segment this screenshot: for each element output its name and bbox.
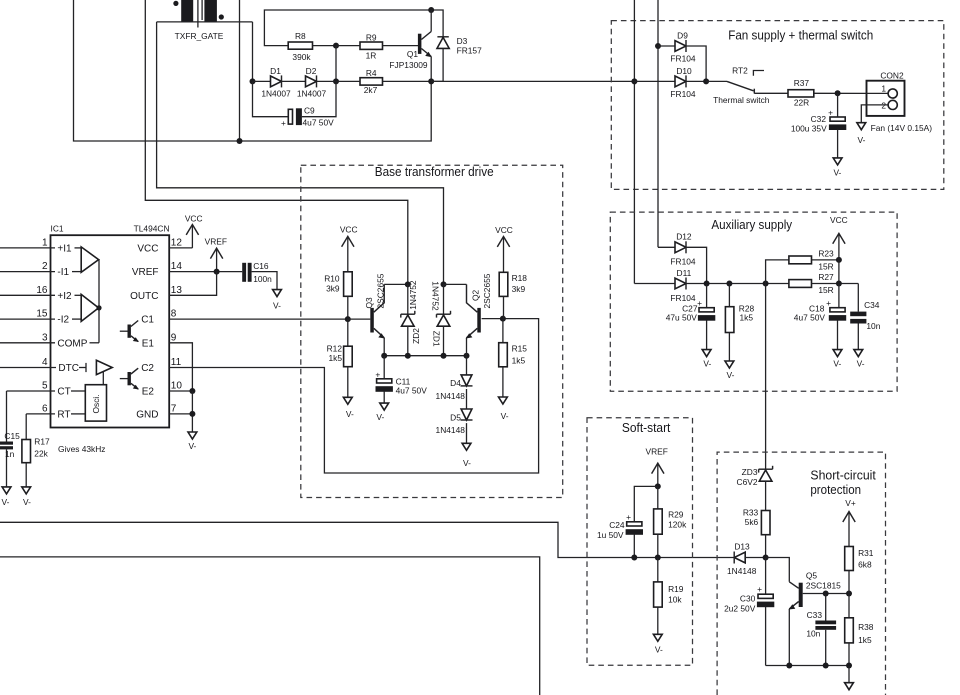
node: Q5 emitter on rail <box>786 663 792 669</box>
svg-text:4: 4 <box>42 357 48 368</box>
node: R29 bottom junction <box>655 555 661 561</box>
svg-text:D5: D5 <box>450 412 461 422</box>
svg-text:ZD3: ZD3 <box>742 467 758 477</box>
thermal switch RT2 <box>706 65 788 105</box>
svg-text:V-: V- <box>2 497 10 507</box>
svg-text:6k8: 6k8 <box>858 560 872 570</box>
svg-text:V-: V- <box>858 135 866 145</box>
node: ZD2 cathode junction <box>405 281 411 287</box>
IC1 pin 7 GND <box>136 391 192 432</box>
svg-text:FR157: FR157 <box>457 45 482 55</box>
wire: vertical from top at x=239.5 <box>239 0 241 141</box>
svg-text:Short-circuit: Short-circuit <box>810 467 876 482</box>
svg-text:V-: V- <box>501 411 509 421</box>
power VCC (right, R18) <box>495 225 513 272</box>
svg-text:+: + <box>626 512 631 522</box>
svg-text:R29: R29 <box>668 509 684 519</box>
resistor R4 <box>336 68 431 95</box>
node: R23/VCC junction <box>836 257 842 263</box>
IC1 pin 12 VCC <box>137 238 192 255</box>
svg-text:3k9: 3k9 <box>512 284 526 294</box>
svg-text:7: 7 <box>171 404 177 415</box>
IC1 pin 11 C2 (wire to Q2 base) <box>141 319 538 473</box>
svg-text:Q1: Q1 <box>407 49 419 59</box>
resistor R38 1k5 <box>845 594 874 666</box>
diode D4 1N4148 <box>436 356 473 401</box>
svg-text:15: 15 <box>36 309 48 320</box>
svg-text:E2: E2 <box>142 387 155 398</box>
svg-text:8: 8 <box>171 309 177 320</box>
svg-text:5k6: 5k6 <box>745 517 759 527</box>
node: D12/D11 junction <box>704 281 710 287</box>
svg-text:R19: R19 <box>668 584 684 594</box>
svg-text:COMP: COMP <box>57 338 87 349</box>
svg-text:10n: 10n <box>866 321 880 331</box>
ground V- (rail) <box>845 666 854 690</box>
wire: long bottom wire exiting bottom edge <box>0 557 540 695</box>
svg-text:C1: C1 <box>141 315 154 326</box>
svg-text:VCC: VCC <box>830 215 848 225</box>
node: C24 bottom junction <box>631 555 637 561</box>
svg-text:V+: V+ <box>845 498 856 508</box>
resistor R18 3k9 <box>499 272 527 318</box>
svg-text:V-: V- <box>376 412 384 422</box>
capacitor C24 1u 50V <box>597 486 658 557</box>
resistor R23 <box>766 248 839 283</box>
power V+ <box>843 498 856 546</box>
svg-text:1k5: 1k5 <box>512 356 526 366</box>
node: C33 on rail <box>823 663 829 669</box>
node: ZD3 feed tap <box>763 281 769 287</box>
diode D5 1N4148 <box>436 389 473 468</box>
svg-text:3k9: 3k9 <box>326 283 340 293</box>
power VCC (aux) <box>830 215 848 260</box>
resistor R37 <box>788 78 867 108</box>
IC1 pin 16 +I2 <box>0 285 81 302</box>
svg-text:TL494CN: TL494CN <box>134 224 170 234</box>
svg-text:+: + <box>826 298 831 308</box>
capacitor C32 100u 35V <box>791 93 846 158</box>
node: R10/R12/Q3 base junction <box>345 316 351 322</box>
resistor R9 <box>336 33 418 61</box>
svg-text:FR104: FR104 <box>670 89 695 99</box>
op-amp error amplifier 2 <box>81 294 101 321</box>
connector CON2 <box>861 71 932 133</box>
svg-text:IC1: IC1 <box>51 224 64 234</box>
capacitor C33 10n <box>806 594 836 666</box>
svg-text:E1: E1 <box>142 338 155 349</box>
zener ZD3 C6V2 <box>737 466 773 511</box>
power VCC (IC pin 12) <box>185 213 203 248</box>
power VREF (soft-start) <box>646 447 668 487</box>
wire: Q3 collector to ZD2 <box>384 283 408 285</box>
ground V- under C16 <box>273 290 282 311</box>
svg-text:5: 5 <box>42 381 48 392</box>
node: Q2 base / R18 / R15 junction <box>500 316 506 322</box>
node: E2/GND junction <box>189 411 195 417</box>
svg-text:10k: 10k <box>668 594 682 604</box>
svg-text:16: 16 <box>36 285 48 296</box>
op-amp error amplifier 1 <box>81 247 98 272</box>
svg-text:Osci.: Osci. <box>91 394 101 413</box>
diode D9 FR104 <box>655 31 706 82</box>
svg-text:V-: V- <box>655 644 663 654</box>
svg-text:Base transformer drive: Base transformer drive <box>375 164 494 179</box>
svg-text:1n: 1n <box>5 449 15 459</box>
box: Auxiliary supply <box>610 212 897 391</box>
svg-text:VCC: VCC <box>137 243 158 254</box>
IC1 pin 2 -I1 <box>0 261 81 278</box>
wire: Q1 emitter to fan supply <box>431 80 634 82</box>
svg-text:1R: 1R <box>366 51 377 61</box>
capacitor C30 2u2 50V <box>724 558 774 666</box>
node: D1 anode junction <box>250 78 256 84</box>
svg-text:2SC1815: 2SC1815 <box>806 581 841 591</box>
svg-text:+: + <box>828 108 833 118</box>
svg-text:1N4148: 1N4148 <box>436 391 466 401</box>
svg-text:-I2: -I2 <box>57 315 69 326</box>
IC1 pin 13 OUTC <box>130 272 216 302</box>
IC1 pin 1 +I1 <box>0 238 81 255</box>
node: VREF/R29/C24 junction <box>655 483 661 489</box>
node: ZD1 anode <box>441 353 447 359</box>
svg-text:1: 1 <box>881 84 886 94</box>
svg-text:12: 12 <box>171 238 183 249</box>
svg-text:15R: 15R <box>818 285 833 295</box>
wire: left vertical net to Q1 emitter rail <box>74 0 432 141</box>
svg-text:4u7 50V: 4u7 50V <box>303 118 335 128</box>
box: Short-circuit protection <box>717 452 885 695</box>
transformer TXFR_GATE <box>157 0 253 41</box>
svg-text:V-: V- <box>463 458 471 468</box>
svg-text:R38: R38 <box>858 622 874 632</box>
svg-text:4u7 50V: 4u7 50V <box>794 313 826 323</box>
diode D12 FR104 <box>658 232 707 284</box>
svg-text:C32: C32 <box>811 114 827 124</box>
resistor R19 10k <box>653 558 683 655</box>
svg-text:+: + <box>375 370 380 380</box>
wire: feedback line op1/op2 to COMP <box>98 260 100 343</box>
resistor R27 <box>789 260 858 295</box>
node: D2/R4 junction <box>333 78 339 84</box>
ground V- under CON2 pin 2 <box>857 123 866 145</box>
resistor R10 3k9 <box>324 272 352 319</box>
resistor R31 6k8 <box>845 547 874 594</box>
node: R38 on rail <box>846 663 852 669</box>
diode D13 1N4148 <box>727 541 766 576</box>
svg-text:6: 6 <box>42 404 48 415</box>
svg-text:11: 11 <box>171 357 182 368</box>
node: R27/C18 junction <box>836 281 842 287</box>
svg-text:Gives 43kHz: Gives 43kHz <box>58 444 105 454</box>
wire: aux tap down to ZD3 <box>765 284 767 469</box>
svg-text:V-: V- <box>703 359 711 369</box>
DTC comparator triangle <box>96 360 112 384</box>
svg-text:FR104: FR104 <box>670 293 695 303</box>
IC1 pin 3 COMP <box>0 332 99 349</box>
svg-text:2SC2655: 2SC2655 <box>482 273 492 308</box>
IC1 pin 8 C1 <box>141 309 348 326</box>
svg-text:R8: R8 <box>295 31 306 41</box>
svg-text:C33: C33 <box>807 610 823 620</box>
svg-text:+: + <box>757 584 762 594</box>
svg-text:1: 1 <box>42 238 48 249</box>
node: R28 tap <box>726 281 732 287</box>
resistor R8 <box>264 10 431 62</box>
svg-text:2SC2655: 2SC2655 <box>376 273 386 308</box>
svg-text:OUTC: OUTC <box>130 291 158 302</box>
wire: vertical x=658 from top <box>657 0 659 247</box>
svg-text:RT2: RT2 <box>732 65 748 75</box>
svg-text:V-: V- <box>188 441 196 451</box>
svg-text:ZD2: ZD2 <box>411 328 421 344</box>
svg-text:1N4752: 1N4752 <box>408 280 418 310</box>
svg-text:120k: 120k <box>668 520 687 530</box>
svg-text:VREF: VREF <box>646 447 668 457</box>
node: R8/R9/D2 junction <box>333 43 339 49</box>
svg-text:C16: C16 <box>253 261 269 271</box>
op-amp IC1 TL494CN body <box>51 224 170 428</box>
svg-text:100n: 100n <box>253 274 272 284</box>
diode D1 1N4007 <box>253 66 306 99</box>
svg-text:R18: R18 <box>512 273 528 283</box>
svg-text:+I2: +I2 <box>57 291 72 302</box>
node: junction on y=141 rail <box>237 138 243 144</box>
resistor R28 <box>725 284 755 381</box>
zener ZD2 1N4752 <box>401 280 421 356</box>
oscillator box Osci. <box>85 385 106 421</box>
svg-text:1N4007: 1N4007 <box>261 89 291 99</box>
svg-text:-I1: -I1 <box>57 267 69 278</box>
svg-text:GND: GND <box>136 409 158 420</box>
svg-text:390k: 390k <box>292 52 311 62</box>
svg-text:14: 14 <box>171 261 183 272</box>
svg-text:Fan (14V 0.15A): Fan (14V 0.15A) <box>871 123 933 133</box>
svg-text:R37: R37 <box>794 78 810 88</box>
IC1 pin 5 CT <box>7 381 86 398</box>
svg-text:3: 3 <box>42 332 48 343</box>
svg-text:R31: R31 <box>858 548 874 558</box>
svg-text:VCC: VCC <box>495 225 513 235</box>
svg-text:1k5: 1k5 <box>328 353 342 363</box>
svg-text:C30: C30 <box>740 594 756 604</box>
wire: vertical x=634.4 from top <box>633 0 635 284</box>
IC1 pin 4 DTC <box>0 357 86 374</box>
ground V- under IC pin 7 <box>188 432 197 451</box>
svg-text:D13: D13 <box>734 541 750 551</box>
svg-text:D9: D9 <box>677 31 688 41</box>
node: Q5 base / C33 junction <box>823 591 829 597</box>
wire: vertical x=145.3 from top down to ZD2 feed <box>145 0 408 284</box>
transistor Q5 2SC1815 <box>766 558 849 666</box>
svg-text:R23: R23 <box>818 248 834 258</box>
svg-text:R15: R15 <box>512 344 528 354</box>
diode D10 FR104 <box>631 66 706 99</box>
svg-text:1N4148: 1N4148 <box>727 566 757 576</box>
svg-text:10: 10 <box>171 381 183 392</box>
svg-text:10n: 10n <box>806 629 820 639</box>
power VREF (IC pin 14) <box>205 237 227 272</box>
svg-text:C9: C9 <box>304 106 315 116</box>
svg-text:D10: D10 <box>676 66 692 76</box>
svg-text:1N4007: 1N4007 <box>297 89 327 99</box>
svg-text:FJP13009: FJP13009 <box>389 60 428 70</box>
power VCC (left, R10) <box>340 225 358 272</box>
svg-text:R10: R10 <box>324 274 340 284</box>
zener ZD1 1N4752 <box>430 281 450 355</box>
emitter ground rail <box>766 665 849 667</box>
node: R37/C32 junction <box>835 90 841 96</box>
svg-text:47u 50V: 47u 50V <box>666 313 698 323</box>
svg-text:DTC: DTC <box>58 363 79 374</box>
resistor R17 22k <box>22 414 50 507</box>
node: R31/R38 divider junction <box>846 591 852 597</box>
node: ZD2 anode <box>405 353 411 359</box>
svg-text:Auxiliary supply: Auxiliary supply <box>711 217 792 232</box>
svg-text:2u2 50V: 2u2 50V <box>724 603 756 613</box>
svg-text:Q3: Q3 <box>364 297 374 309</box>
svg-text:9: 9 <box>171 332 177 343</box>
svg-text:ZD1: ZD1 <box>432 331 442 347</box>
box: Soft-start <box>587 418 693 666</box>
capacitor C9 4u7 50V <box>253 81 337 128</box>
svg-text:4u7 50V: 4u7 50V <box>396 386 428 396</box>
box: Fan supply + thermal switch <box>611 21 944 190</box>
internal transistor 2 (C2/E2) <box>120 368 139 389</box>
svg-text:R27: R27 <box>818 272 834 282</box>
svg-text:V-: V- <box>346 409 354 419</box>
svg-text:Q5: Q5 <box>806 570 818 580</box>
node: Q1 emitter / R4 junction <box>428 78 434 84</box>
svg-text:V-: V- <box>857 359 865 369</box>
svg-text:+: + <box>697 298 702 308</box>
wire: junction down to D2 output <box>335 46 337 82</box>
diode D2 1N4007 <box>297 66 336 99</box>
svg-text:C6V2: C6V2 <box>737 477 758 487</box>
svg-text:CT: CT <box>57 387 70 398</box>
wire: transformer left winding down to ZD1 feed <box>157 22 444 285</box>
svg-text:1k5: 1k5 <box>858 635 872 645</box>
svg-text:C34: C34 <box>864 300 880 310</box>
capacitor C16 100n <box>242 261 277 290</box>
internal transistor 1 (C1/E1) <box>120 321 139 343</box>
node: ZD1 cathode junction <box>441 281 447 287</box>
svg-text:V-: V- <box>273 301 281 311</box>
svg-text:R33: R33 <box>743 507 759 517</box>
resistor R33 5k6 <box>743 507 770 557</box>
svg-text:D12: D12 <box>676 232 692 242</box>
svg-text:V-: V- <box>833 359 841 369</box>
svg-text:D11: D11 <box>677 268 692 278</box>
svg-text:Thermal switch: Thermal switch <box>713 95 770 105</box>
svg-text:+I1: +I1 <box>57 243 72 254</box>
svg-text:C24: C24 <box>609 520 625 530</box>
svg-text:VCC: VCC <box>340 225 358 235</box>
IC1 pin 10 E2 <box>142 381 193 398</box>
svg-text:protection: protection <box>810 482 861 497</box>
svg-text:22R: 22R <box>794 98 809 108</box>
svg-text:C15: C15 <box>4 431 20 441</box>
svg-text:1N4148: 1N4148 <box>436 425 466 435</box>
capacitor C34 10n <box>850 284 881 369</box>
IC1 pin 15 -I2 <box>0 309 81 326</box>
svg-text:+: + <box>281 118 286 128</box>
svg-text:C2: C2 <box>141 363 154 374</box>
svg-text:Soft-start: Soft-start <box>622 420 671 435</box>
transistor Q2 2SC2655 <box>444 273 503 355</box>
svg-text:1u 50V: 1u 50V <box>597 530 624 540</box>
svg-text:FR104: FR104 <box>670 257 695 267</box>
svg-text:2k7: 2k7 <box>364 85 378 95</box>
node: VREF junction <box>214 269 220 275</box>
capacitor C11 4u7 50V <box>375 356 427 422</box>
svg-text:V-: V- <box>727 370 735 380</box>
node: Q2 emitter / D4 <box>464 353 470 359</box>
node: D9/D10 output junction <box>703 78 709 84</box>
svg-text:R9: R9 <box>366 33 377 43</box>
svg-text:V-: V- <box>23 497 31 507</box>
svg-text:D2: D2 <box>306 66 317 76</box>
transistor Q3 2SC2655 <box>348 273 386 355</box>
svg-text:TXFR_GATE: TXFR_GATE <box>175 31 224 41</box>
svg-text:R12: R12 <box>327 344 343 354</box>
svg-text:VREF: VREF <box>205 237 227 247</box>
svg-text:1N4752: 1N4752 <box>430 281 440 311</box>
svg-text:RT: RT <box>57 409 70 420</box>
svg-text:100u 35V: 100u 35V <box>791 124 827 134</box>
transistor Q1 FJP13009 <box>389 10 431 81</box>
capacitor C18 4u7 50V <box>794 284 846 369</box>
box: Base transformer drive <box>301 165 563 497</box>
svg-text:CON2: CON2 <box>880 71 904 81</box>
IC1 pin 6 RT <box>26 404 85 421</box>
svg-text:R17: R17 <box>34 437 50 447</box>
svg-text:1k5: 1k5 <box>740 313 754 323</box>
svg-text:22k: 22k <box>34 449 48 459</box>
wire: long feedback wire to soft-start / D13 <box>0 522 734 557</box>
svg-text:13: 13 <box>171 285 183 296</box>
IC1 pin 14 VREF <box>132 261 242 278</box>
svg-text:D4: D4 <box>450 378 461 388</box>
svg-text:D1: D1 <box>270 66 281 76</box>
emitter rail wire <box>384 355 466 357</box>
svg-text:VCC: VCC <box>185 213 203 223</box>
svg-text:FR104: FR104 <box>670 54 695 64</box>
wire: transformer right winding down to D1 <box>252 22 254 82</box>
resistor R29 120k <box>654 486 687 557</box>
diode D3 FR157 <box>431 10 482 81</box>
ground V- under C32 <box>833 158 842 178</box>
svg-text:VREF: VREF <box>132 267 159 278</box>
IC1 pin 9 E1 <box>142 332 193 391</box>
capacitor C27 47u 50V <box>666 284 716 369</box>
svg-text:R4: R4 <box>366 68 377 78</box>
node: R33/D13/C30/Q5 junction <box>763 555 769 561</box>
svg-text:15R: 15R <box>818 261 833 271</box>
svg-text:V-: V- <box>833 167 841 177</box>
node: top wire to Q1 collector <box>428 7 434 13</box>
diode D11 FR104 <box>634 268 789 303</box>
svg-text:2: 2 <box>42 261 48 272</box>
svg-text:Q2: Q2 <box>470 289 480 301</box>
node: E1/E2 junction <box>189 388 195 394</box>
resistor R12 1k5 <box>327 319 354 419</box>
capacitor C15 1n <box>0 391 20 507</box>
svg-text:Fan supply + thermal switch: Fan supply + thermal switch <box>728 27 873 42</box>
resistor R15 1k5 <box>499 319 528 421</box>
node: Q3 emitter / C11 <box>381 353 387 359</box>
